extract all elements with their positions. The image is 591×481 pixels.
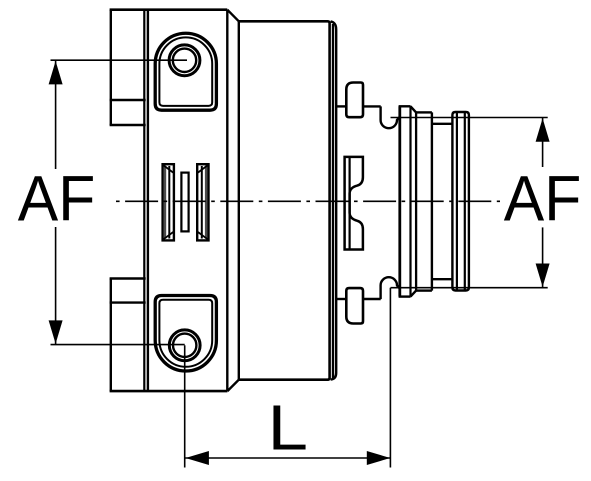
svg-text:AF: AF: [504, 162, 582, 234]
svg-text:AF: AF: [18, 162, 96, 234]
svg-text:L: L: [268, 392, 309, 464]
